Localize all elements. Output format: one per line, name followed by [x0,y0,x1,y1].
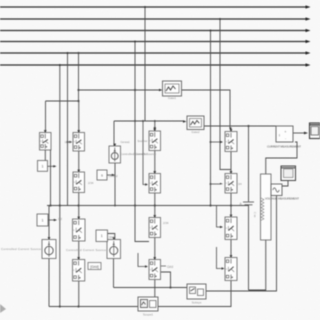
wire bus2 drop [220,19,231,170]
transistor Q9 [225,129,237,151]
controlled current source I3 [109,144,121,163]
wire mid rail drop to source 1 [48,206,50,240]
wire gate stub Q12 [217,247,225,270]
wire leg A to constant [44,150,46,161]
capacitor C1 [240,202,258,218]
bus wire 1 [0,5,311,8]
wire capacitor top [248,126,250,202]
wire bottom rail [49,306,230,308]
node bottom rail junctions [59,205,172,308]
voltage measurement block U4 [265,184,299,201]
wire gate stub Q9 [210,141,224,143]
svg-text:-: - [285,137,286,141]
node gate feed junctions [77,52,136,102]
wire source1 bottom to rail [48,259,50,307]
transistor Q1 [67,130,85,151]
svg-text:Gate2: Gate2 [191,130,200,134]
svg-text:s: s [101,173,103,177]
bus wire 3 [0,29,311,32]
constant K1 [38,161,48,172]
corner mark [0,304,6,313]
transistor Q10 [225,171,237,193]
wire measurement output [293,132,308,135]
constant K4 [96,230,108,242]
svg-text:1/4ea: 1/4ea [65,140,72,144]
transistor Q7 [149,215,161,237]
wire mid rail [47,205,249,207]
wire rail to Q6 gate [142,120,148,186]
wire constant K3 output [107,174,115,176]
wire bus6 drop [59,65,61,307]
svg-text:2/34: 2/34 [88,181,94,185]
node bus drop junctions [59,6,221,66]
current measurement block U3 [267,126,301,149]
wire bus3 drop [210,31,212,206]
svg-text:Scope1: Scope1 [143,313,154,317]
svg-text:Genea1: Genea1 [121,140,131,144]
svg-text:1/Z: 1/Z [58,217,62,221]
subsystem gate driver U2 [187,116,204,134]
wire bus5 drop left [67,53,69,206]
svg-text:Idean: Idean [109,235,116,239]
wire gate2 output rail [204,125,276,127]
goto tag Grid [88,263,101,270]
svg-text:[Grid]: [Grid] [90,265,98,269]
wire right column [230,132,232,281]
wire mid column top [154,121,157,131]
wire capacitor bottom [248,205,250,290]
constant K3 [97,170,107,180]
svg-text:VOLTAGE MEASUREMENT: VOLTAGE MEASUREMENT [265,197,299,201]
wire constant K1 output [48,165,57,167]
transistor Q2 [73,170,85,193]
wire gate stub Q8 [138,253,148,268]
bus wire 5 [0,51,311,54]
wire leg A right branch to rail [50,150,52,206]
node Q1 gate junction [66,141,68,143]
svg-text:Gate1: Gate1 [168,96,177,100]
transistor Q8 [149,257,161,279]
wire constant K2 output [48,219,57,221]
svg-text:C sn: C sn [253,212,257,218]
bus wire 4 [0,40,311,43]
subsystem U5 [187,284,206,305]
wire mid leg out [161,272,171,288]
wire bus1 drop [144,7,146,121]
svg-text:Subsys: Subsys [192,301,202,305]
controlled current source I1 [1,237,56,258]
bus wire 2 [0,17,311,20]
wire source3 to mid rail [114,163,116,206]
wire gate2 feed rail [114,120,187,123]
wire right leg to bottom rail [230,281,231,307]
wire mid column [154,130,156,297]
wire bottom measure rail [114,287,188,289]
goto tag Grid1 [161,265,173,269]
wire gate stub Q11 [217,206,224,229]
node mid rail junctions [49,204,232,206]
wire bus4 drop [135,42,149,242]
wire bus5 drop to gate feed [78,53,80,101]
svg-text:2/34: 2/34 [163,221,169,225]
wire gate1 feed [79,89,163,92]
svg-text:Grid: Grid [167,265,173,269]
svg-text:+: + [285,130,287,134]
wire source2 bottom [113,259,115,288]
wire source2 gate feed [108,234,115,240]
transistor Q3 [73,217,86,241]
svg-text:3/4: 3/4 [238,182,242,186]
scope Scope3 [281,166,296,181]
wire measurement return loop [266,142,297,174]
wire meas chain down [206,196,277,292]
svg-text:Genea2: Genea2 [109,174,119,178]
bus wire 6 [0,63,311,66]
controlled current source I2 [66,237,121,258]
svg-text:Controlled Current Source: Controlled Current Source [1,247,41,251]
wire left column [78,101,80,307]
wire load to voltage measurement [270,189,273,191]
wire load bottom loop [249,240,266,290]
transistor Q12 [225,255,237,280]
transistor Q0 [40,130,52,150]
transistor Q11 [225,215,237,240]
node rail cap junction [134,120,250,127]
svg-text:1: 1 [42,218,44,222]
svg-text:i: i [279,133,280,138]
wire voltage meas to scope [282,181,288,187]
scope Scope1 [138,297,158,317]
scope Scope2 [310,123,320,139]
svg-text:CURRENT MEASUREMENT: CURRENT MEASUREMENT [267,145,301,149]
wire leg A drop [45,101,47,133]
svg-text:Controlled Current Source: Controlled Current Source [66,248,106,252]
wire gate1 output to right column [182,90,230,128]
resistor load branch [261,174,272,240]
wire drop to source3 [113,121,115,146]
wire branch to phase leg A [46,100,79,102]
svg-text:Current Sw: Current Sw [134,152,148,156]
wire right column top arrow [229,128,232,131]
svg-text:Snubber: Snubber [137,139,147,143]
wire gate stub Q10 [210,183,224,185]
subsystem gate driver U1 [163,81,182,100]
transistor Q4 [73,257,85,281]
transistor Q6 [149,171,161,193]
constant K2 [37,214,48,226]
transistor Q5 [149,129,161,151]
svg-text:1: 1 [101,234,103,238]
svg-text:1: 1 [42,164,44,168]
